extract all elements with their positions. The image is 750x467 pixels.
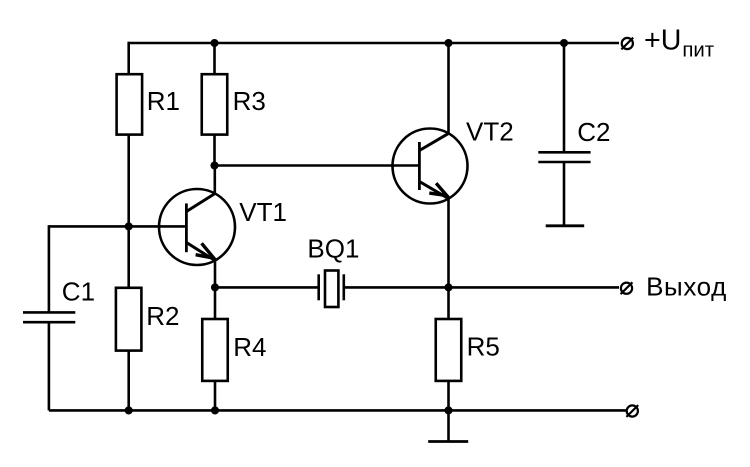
svg-text:VT2: VT2 [466,116,514,146]
wire VT1 emitter lead [214,261,217,288]
svg-text:C1: C1 [62,277,95,307]
wire top supply rail [129,42,619,45]
wire R1 bottom lead [127,135,130,227]
resistor R1 [117,74,143,134]
wire R2 bottom lead [127,351,130,411]
svg-text:R3: R3 [233,86,266,116]
wire R5 bottom lead [447,381,450,411]
wire VT1 base [49,225,187,228]
transistor VT2 [393,129,468,204]
node C2 end bar [546,224,585,227]
transistor VT1 [159,189,235,265]
capacitor C1 [23,312,75,322]
node junction VT1 emitter [211,283,219,291]
resistor R5 [436,319,462,381]
wire VT2 collector lead [447,43,450,133]
wire R3 top lead [213,43,216,74]
svg-text:R4: R4 [233,332,266,362]
terminal +Upit [621,38,633,50]
wire output rail left [215,286,319,289]
resistor R3 [202,74,228,134]
wire C2 bottom lead [563,162,566,226]
svg-text:VT1: VT1 [239,197,287,227]
svg-text:R5: R5 [467,331,500,361]
node junction bottom R5 [444,406,452,414]
wire R4 bottom lead [214,381,217,411]
node junction R3-VT2 base [210,161,218,169]
node junction top R3 [210,39,218,47]
svg-text:BQ1: BQ1 [307,234,359,264]
wire VT2 emitter lead [447,199,450,288]
terminal output [621,282,633,294]
terminal common [626,405,638,417]
wire C1 bottom lead [48,322,51,410]
svg-text:R1: R1 [147,86,180,116]
capacitor C2 [538,152,590,162]
node junction R1-R2 base [125,222,133,230]
resistor R2 [116,288,141,351]
svg-text:R2: R2 [146,301,179,331]
wire VT1 collector lead [214,166,217,194]
svg-text:Выход: Выход [646,271,727,301]
wire VT2 base net [215,164,420,167]
svg-text:+Uпит: +Uпит [644,25,714,62]
wire C1 top lead [48,225,51,312]
node junction bottom R2 [125,406,133,414]
crystal BQ1 [319,271,344,308]
wire R1 top lead [127,42,130,74]
wire C2 top lead [563,43,566,152]
node junction top VT2 [444,39,452,47]
node junction VT2 emitter [444,283,452,291]
svg-text:C2: C2 [577,117,610,147]
wire R2 top lead [127,226,130,287]
wire output rail right [344,286,619,289]
wire R4 top lead [214,287,217,319]
node junction bottom R4 [211,406,219,414]
wire R3 bottom lead [213,135,216,166]
ground [428,410,468,441]
node junction top C2 [560,39,568,47]
wire R5 top lead [447,287,450,319]
wire bottom rail [49,409,626,412]
resistor R4 [202,319,228,381]
